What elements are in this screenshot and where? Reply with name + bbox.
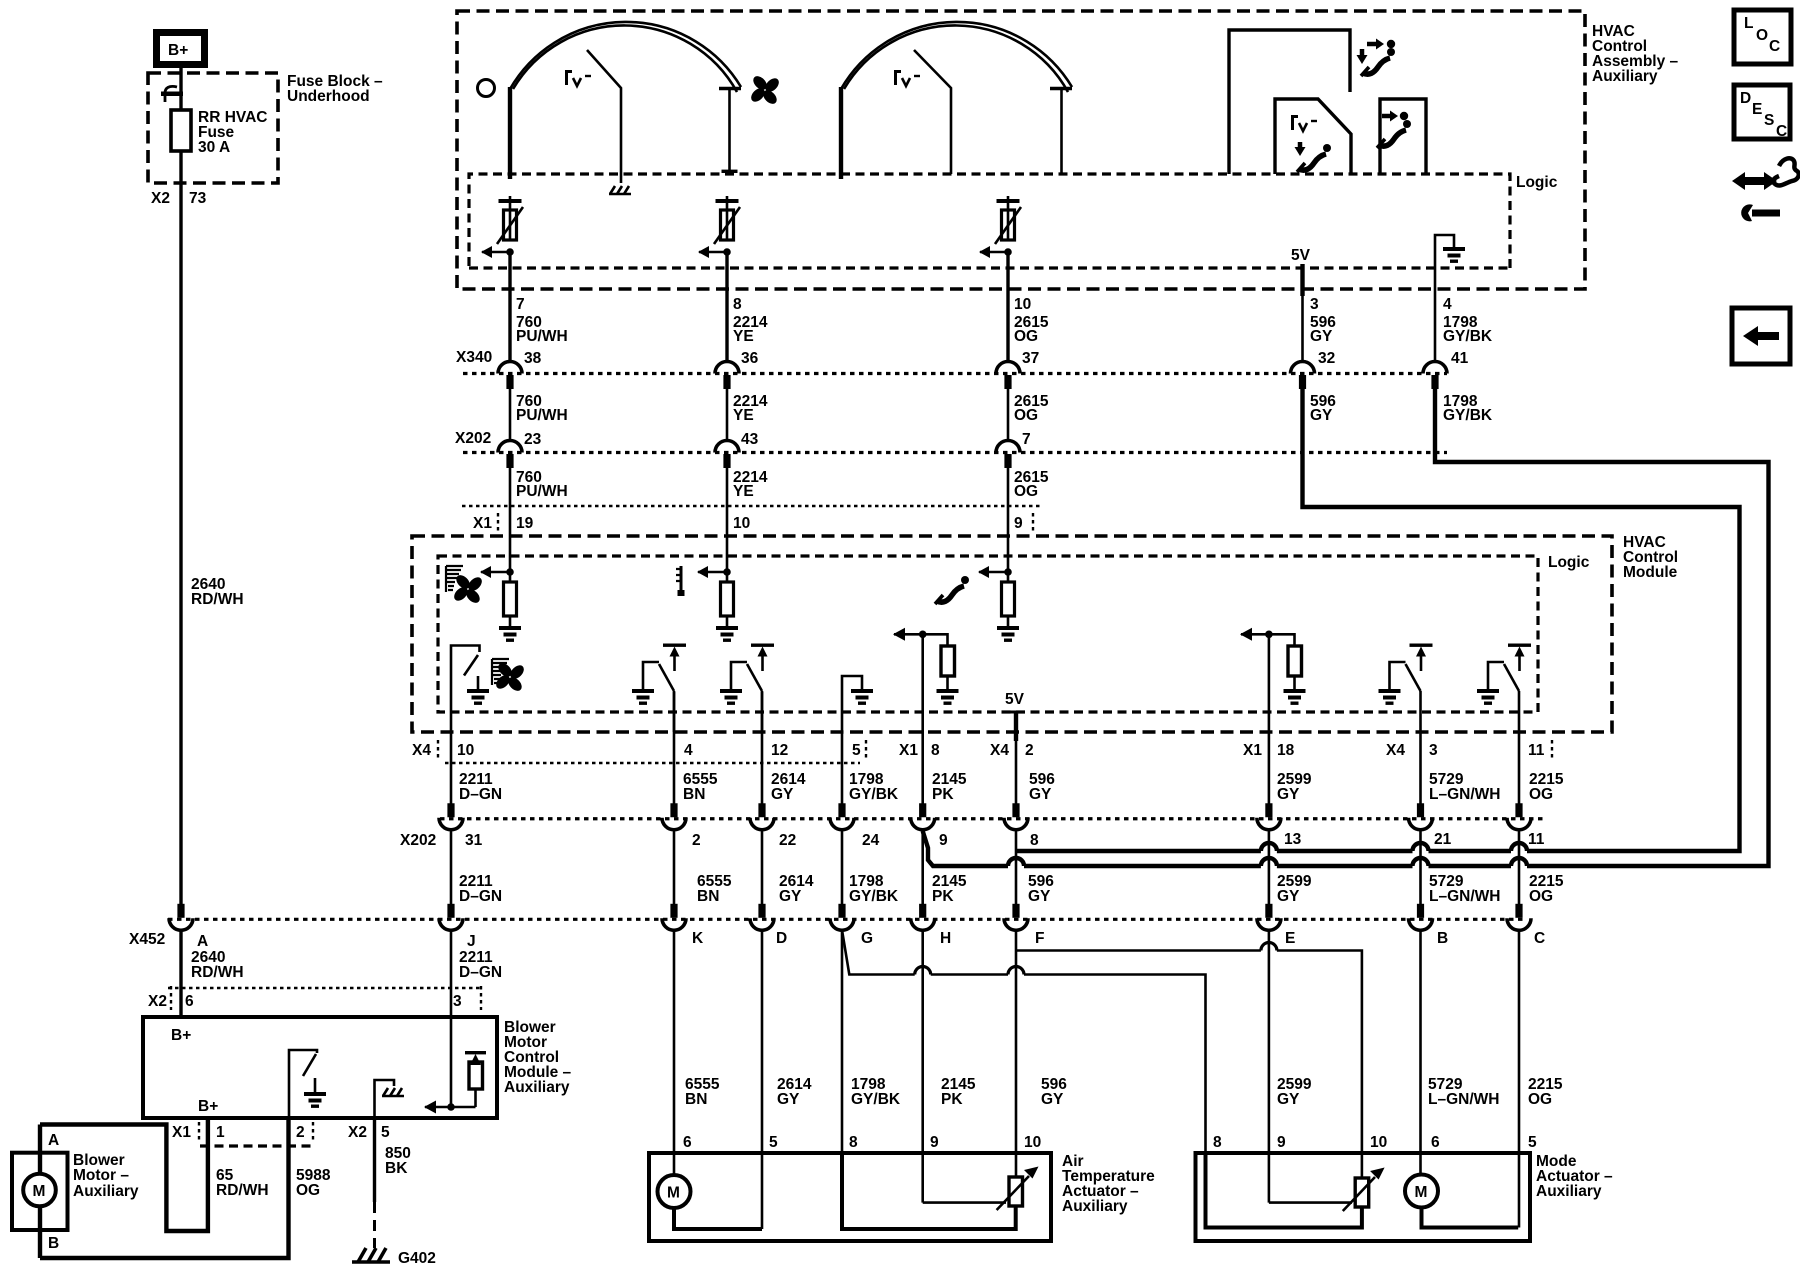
svg-text:A: A (197, 933, 208, 950)
Fuse Block - Underhood dashed box (148, 73, 278, 183)
svg-text:PK: PK (941, 1091, 963, 1108)
wire B down (1419, 929, 1422, 1174)
svg-text:X4: X4 (412, 742, 431, 759)
air motor M (658, 1175, 691, 1208)
svg-text:OG: OG (1014, 407, 1038, 424)
svg-text:10: 10 (1024, 1134, 1041, 1151)
wire (1007, 389, 1010, 441)
svg-text:RD/WH: RD/WH (191, 591, 244, 608)
svg-text:5V: 5V (1291, 247, 1311, 264)
LOC button (1734, 10, 1791, 64)
wire crossover hop (1511, 843, 1527, 851)
hops of 1798 line over 596 E B C columns (1008, 858, 1024, 866)
switch A with wedge fan icon (451, 646, 489, 763)
svg-text:GY: GY (1029, 786, 1052, 803)
svg-text:8: 8 (931, 742, 940, 759)
wire K down (673, 929, 676, 1176)
connector X202 pin 7 (996, 441, 1020, 469)
svg-text:L: L (1744, 15, 1753, 32)
mode motor return (1422, 1208, 1519, 1228)
svg-text:8: 8 (733, 296, 742, 313)
svg-text:B+: B+ (198, 1098, 218, 1115)
wire (474, 1089, 477, 1107)
wire (1518, 732, 1521, 804)
svg-text:L–GN/WH: L–GN/WH (1428, 1091, 1499, 1108)
connector X452 pin J (439, 904, 463, 931)
svg-text:9: 9 (930, 1134, 939, 1151)
svg-text:8: 8 (1213, 1134, 1222, 1151)
svg-text:L–GN/WH: L–GN/WH (1429, 786, 1500, 803)
svg-text:6: 6 (1431, 1134, 1440, 1151)
wire (508, 87, 512, 179)
connector X452 pin H (911, 904, 935, 931)
wire (1429, 849, 1512, 853)
svg-text:6: 6 (185, 993, 194, 1010)
svg-text:RD/WH: RD/WH (191, 964, 244, 981)
X2 connector row blower module (168, 987, 482, 989)
connector X340 pin 36 (715, 362, 739, 390)
resistor to ground col 2214 (697, 566, 738, 642)
wire (839, 87, 843, 179)
svg-text:11: 11 (1528, 742, 1545, 759)
svg-text:19: 19 (516, 515, 534, 532)
svg-text:B+: B+ (171, 1027, 191, 1044)
wire (728, 90, 731, 171)
DESC button (1734, 85, 1790, 140)
svg-text:5V: 5V (1005, 691, 1025, 708)
svg-text:3: 3 (1310, 296, 1319, 313)
assembly outer dashed box (457, 11, 1585, 289)
knob 1 rotary switch arc (510, 22, 741, 179)
wire (303, 1054, 316, 1076)
fuse clip hook (165, 86, 177, 102)
svg-text:S: S (1764, 112, 1774, 129)
wire J to blower module (450, 929, 453, 1018)
svg-text:X340: X340 (456, 349, 492, 366)
2145 PK arrow resistor ground (893, 628, 959, 762)
resistor to ground col 760 (480, 566, 521, 642)
svg-text:M: M (33, 1183, 46, 1200)
svg-text:Auxiliary: Auxiliary (504, 1079, 570, 1096)
switch C (pin 12) (720, 644, 774, 733)
svg-text:GY: GY (1028, 888, 1051, 905)
connector X202 pin 11 (1507, 803, 1531, 830)
connector X202 pin 13 (1257, 803, 1281, 830)
svg-text:D–GN: D–GN (459, 888, 502, 905)
wire crossover hop (1008, 967, 1024, 975)
wire (1268, 762, 1271, 804)
knob 2 rotary switch arc (841, 22, 1072, 179)
svg-text:X452: X452 (129, 931, 165, 948)
wire (38, 1207, 42, 1258)
ground (304, 1092, 326, 1108)
mode selector switch bracket 2 (1275, 99, 1351, 174)
sensor mark knob 2 (894, 70, 920, 86)
svg-text:GY: GY (1310, 328, 1333, 345)
wire (841, 732, 844, 804)
person icon down (1295, 142, 1332, 172)
mode pot (1206, 1153, 1385, 1228)
wire (425, 1106, 476, 1109)
svg-text:9: 9 (1277, 1134, 1286, 1151)
switch E (X4 3) (1379, 644, 1433, 733)
svg-text:32: 32 (1318, 350, 1335, 367)
svg-text:X2: X2 (148, 993, 167, 1010)
wire (726, 389, 729, 441)
fuse RR HVAC 30A (171, 110, 191, 151)
mode motor M (1405, 1175, 1438, 1208)
connector X452 pin A (169, 904, 193, 931)
svg-text:PK: PK (932, 786, 954, 803)
ground (937, 689, 959, 705)
svg-text:Logic: Logic (1516, 174, 1558, 191)
wire (931, 973, 1008, 976)
svg-text:BK: BK (385, 1160, 408, 1177)
fan icon (742, 67, 789, 114)
svg-text:BN: BN (697, 888, 719, 905)
svg-text:5: 5 (1528, 1134, 1537, 1151)
connector X452 pin D (750, 904, 774, 931)
svg-text:X2: X2 (151, 190, 170, 207)
switch to chassis ground inside module (289, 1050, 326, 1118)
svg-text:9: 9 (939, 832, 948, 849)
svg-text:10: 10 (457, 742, 474, 759)
svg-text:GY: GY (1277, 1091, 1300, 1108)
wire 5988 OG: module pin2 to motor B (40, 1118, 289, 1258)
svg-text:Logic: Logic (1548, 554, 1590, 571)
wire (1241, 634, 1295, 646)
svg-text:5: 5 (852, 742, 861, 759)
connector X202 pin 22 (750, 803, 774, 830)
svg-text:10: 10 (1370, 1134, 1387, 1151)
ground (467, 689, 489, 705)
wire (1419, 732, 1422, 804)
svg-text:K: K (692, 930, 704, 947)
wire (1014, 712, 1018, 741)
seat person icon (1361, 48, 1395, 76)
svg-text:Motor –: Motor – (73, 1167, 129, 1184)
connector X452 pin C (1507, 904, 1531, 931)
svg-text:BN: BN (683, 786, 705, 803)
person icon right-up (1357, 39, 1396, 77)
wire E down (1268, 929, 1271, 1203)
svg-text:X1: X1 (473, 515, 492, 532)
sensor mark knob 1 (565, 70, 591, 86)
back arrow button (1732, 308, 1790, 364)
svg-text:X1: X1 (899, 742, 918, 759)
assembly logic dashed box (469, 174, 1510, 268)
connector X452 pin F (1004, 904, 1028, 931)
module outer dashed box (412, 536, 1612, 732)
svg-text:X1: X1 (172, 1124, 191, 1141)
svg-text:A: A (48, 1132, 59, 1149)
svg-text:E: E (1285, 930, 1295, 947)
svg-text:37: 37 (1022, 350, 1039, 367)
fan icon (487, 654, 534, 701)
connector X452 pin E (1257, 904, 1281, 931)
svg-text:38: 38 (524, 350, 542, 367)
svg-text:B: B (1437, 930, 1448, 947)
svg-text:7: 7 (516, 296, 525, 313)
svg-text:E: E (1752, 101, 1762, 118)
pot 2 (698, 196, 740, 258)
svg-text:GY: GY (1277, 786, 1300, 803)
wire crossover hop (1261, 943, 1277, 951)
svg-text:D: D (1740, 90, 1751, 107)
switch B (pin 4) (632, 644, 686, 733)
wire (761, 692, 764, 804)
chassis ground (382, 1088, 404, 1096)
svg-text:4: 4 (1443, 296, 1452, 313)
wire (1419, 829, 1422, 904)
wire B+ to fuse (179, 68, 182, 110)
svg-text:D–GN: D–GN (459, 964, 502, 981)
connector X202 pin 24 (830, 803, 854, 830)
svg-text:GY: GY (771, 786, 794, 803)
svg-text:13: 13 (1284, 831, 1302, 848)
wire (1277, 849, 1413, 853)
svg-text:2: 2 (296, 1124, 305, 1141)
ground elbow 1798 (pin 5) (842, 676, 862, 732)
connector X452 pin B (1409, 904, 1433, 931)
svg-text:X2: X2 (348, 1124, 367, 1141)
svg-text:OG: OG (1529, 888, 1553, 905)
svg-text:X1: X1 (1243, 742, 1262, 759)
wire F down + branch to mode 10 (1015, 929, 1018, 1177)
svg-text:22: 22 (779, 832, 796, 849)
svg-text:OG: OG (1528, 1091, 1552, 1108)
svg-text:8: 8 (1030, 832, 1039, 849)
svg-text:21: 21 (1434, 831, 1452, 848)
wire (1269, 1201, 1352, 1204)
svg-text:GY: GY (1277, 888, 1300, 905)
ground (851, 689, 873, 705)
svg-text:GY/BK: GY/BK (849, 888, 899, 905)
wedge fan icon 1 (446, 566, 463, 592)
svg-text:10: 10 (1014, 296, 1031, 313)
air motor return path (674, 1208, 762, 1229)
wire (923, 1201, 1006, 1204)
air pot (842, 1153, 1039, 1229)
wire 2615 OG col (1006, 252, 1009, 362)
connector X202 pin 23 (498, 441, 522, 469)
svg-text:M: M (1415, 1184, 1428, 1201)
knob 1 wiper arm (587, 50, 621, 183)
ground (1443, 247, 1465, 263)
svg-text:6: 6 (683, 1134, 692, 1151)
svg-text:X202: X202 (455, 430, 491, 447)
svg-text:Auxiliary: Auxiliary (1592, 68, 1658, 85)
wire (1024, 864, 1261, 868)
connector X202 pin 43 (715, 441, 739, 469)
wire (375, 1080, 395, 1118)
svg-text:O: O (1756, 27, 1768, 44)
svg-text:PU/WH: PU/WH (516, 483, 568, 500)
wire (921, 762, 924, 804)
wire (451, 646, 480, 763)
seat icon (935, 576, 969, 604)
wires X202 to X452 (450, 829, 453, 904)
svg-text:X4: X4 (990, 742, 1009, 759)
svg-text:3: 3 (1429, 742, 1438, 759)
wire (509, 468, 512, 572)
service arrow-wrench icon (1732, 158, 1799, 221)
wire (1268, 634, 1271, 762)
wire (1268, 829, 1271, 904)
svg-text:B: B (48, 1235, 59, 1252)
wire 760 PU/WH col (508, 252, 511, 362)
wire (289, 1050, 317, 1118)
svg-text:GY: GY (1310, 407, 1333, 424)
wire H down (921, 929, 924, 1203)
wire (1016, 949, 1261, 952)
wire (1518, 829, 1521, 904)
svg-text:43: 43 (741, 431, 759, 448)
svg-text:5: 5 (381, 1124, 390, 1141)
svg-text:PK: PK (932, 888, 954, 905)
svg-text:23: 23 (524, 431, 542, 448)
mode selector bracket 1 (1229, 30, 1350, 174)
svg-text:31: 31 (465, 832, 483, 849)
wire crossover hop (1261, 858, 1277, 866)
svg-text:36: 36 (741, 350, 759, 367)
svg-text:OG: OG (1014, 328, 1038, 345)
connector X340 pin 41 (1423, 362, 1447, 390)
wire (1429, 864, 1512, 868)
svg-text:D–GN: D–GN (459, 786, 502, 803)
svg-text:10: 10 (733, 515, 750, 532)
wire (1277, 951, 1362, 1178)
svg-text:4: 4 (684, 742, 693, 759)
connector X202 pin 21 (1409, 803, 1433, 830)
hops of 596 line over E B C columns (1261, 843, 1277, 851)
wire (1060, 89, 1063, 174)
svg-text:C: C (1769, 38, 1780, 55)
wire (997, 1176, 1029, 1210)
svg-text:2: 2 (1025, 742, 1034, 759)
wire (894, 634, 948, 646)
pot 1 (blower speed) (481, 196, 523, 258)
wire crossover hop (1413, 858, 1429, 866)
svg-text:BN: BN (685, 1091, 707, 1108)
wire (1007, 468, 1010, 572)
wire A to blower module (179, 929, 182, 1018)
svg-text:L–GN/WH: L–GN/WH (1429, 888, 1500, 905)
ground (1284, 689, 1306, 705)
wire (464, 655, 478, 676)
svg-text:30 A: 30 A (198, 139, 230, 156)
wire (841, 829, 844, 904)
svg-text:GY: GY (1041, 1091, 1064, 1108)
svg-text:X4: X4 (1386, 742, 1405, 759)
wire (1016, 849, 1261, 853)
svg-text:Module: Module (1623, 564, 1678, 581)
wire (509, 389, 512, 441)
connector X340 pin 37 (996, 362, 1020, 390)
wire 596 GY col upper (1301, 296, 1304, 362)
wire fuse down (179, 151, 182, 906)
wire crossover hop (1511, 858, 1527, 866)
svg-text:1: 1 (216, 1124, 225, 1141)
svg-text:9: 9 (1014, 515, 1023, 532)
svg-text:YE: YE (733, 328, 754, 345)
svg-text:Underhood: Underhood (287, 88, 370, 105)
svg-text:H: H (940, 930, 951, 947)
svg-text:Auxiliary: Auxiliary (1536, 1183, 1602, 1200)
svg-text:GY/BK: GY/BK (851, 1091, 901, 1108)
module logic dashed box (438, 556, 1538, 712)
svg-text:OG: OG (1014, 483, 1038, 500)
svg-text:C: C (1776, 123, 1787, 140)
chassis ground knob 1 arm (609, 186, 631, 194)
wire (477, 676, 480, 689)
ground G402 (352, 1248, 436, 1267)
fan icon (445, 566, 492, 613)
svg-text:G: G (861, 930, 873, 947)
svg-text:G402: G402 (398, 1250, 436, 1267)
svg-text:73: 73 (189, 190, 207, 207)
wire (921, 634, 924, 762)
svg-text:3: 3 (453, 993, 462, 1010)
svg-text:18: 18 (1277, 742, 1295, 759)
resistor to ground col 2615 (978, 566, 1019, 642)
svg-text:D: D (776, 930, 787, 947)
svg-text:7: 7 (1022, 431, 1031, 448)
svg-text:RD/WH: RD/WH (216, 1182, 269, 1199)
B+ terminal symbol (157, 33, 205, 65)
sensor mark mode (1291, 115, 1317, 131)
svg-text:YE: YE (733, 407, 754, 424)
svg-text:GY/BK: GY/BK (849, 786, 899, 803)
wire (450, 762, 453, 804)
wire (1300, 264, 1304, 296)
svg-text:GY: GY (779, 888, 802, 905)
wire 1798 GY/BK col upper (1434, 296, 1437, 362)
wire crossover hop (915, 967, 931, 975)
svg-text:41: 41 (1451, 350, 1469, 367)
connector X202 pin 9 (911, 803, 935, 830)
transistor: resistor with up arrow, junction arrow left (424, 1018, 486, 1114)
svg-text:B+: B+ (168, 42, 188, 59)
connector X452 pin G (830, 904, 854, 931)
wire (1303, 389, 1740, 851)
connector X202 pin 31 (439, 803, 463, 830)
connector X452 pin K (662, 904, 686, 931)
svg-text:Auxiliary: Auxiliary (73, 1183, 139, 1200)
wire (1343, 1177, 1375, 1211)
wire (1024, 975, 1206, 1154)
wire D down (761, 929, 764, 1229)
svg-text:J: J (467, 933, 476, 950)
wire 65 RD/WH: module pin1 through U to motor (40, 1118, 208, 1231)
pot 3 (979, 196, 1021, 258)
wire crossover hop (1413, 843, 1429, 851)
svg-text:X202: X202 (400, 832, 436, 849)
ground elbow assembly (1435, 235, 1454, 296)
svg-text:C: C (1534, 930, 1545, 947)
svg-text:OG: OG (1529, 786, 1553, 803)
svg-text:11: 11 (1528, 831, 1545, 848)
svg-text:PU/WH: PU/WH (516, 328, 568, 345)
connector X340 pin 32 (1291, 362, 1315, 390)
wire (450, 1018, 453, 1107)
svg-text:GY/BK: GY/BK (1443, 407, 1493, 424)
switch F (pin 11) (1477, 644, 1531, 733)
wire (38, 1125, 42, 1175)
svg-text:Auxiliary: Auxiliary (1062, 1198, 1128, 1215)
svg-text:2: 2 (692, 832, 701, 849)
svg-text:5: 5 (769, 1134, 778, 1151)
